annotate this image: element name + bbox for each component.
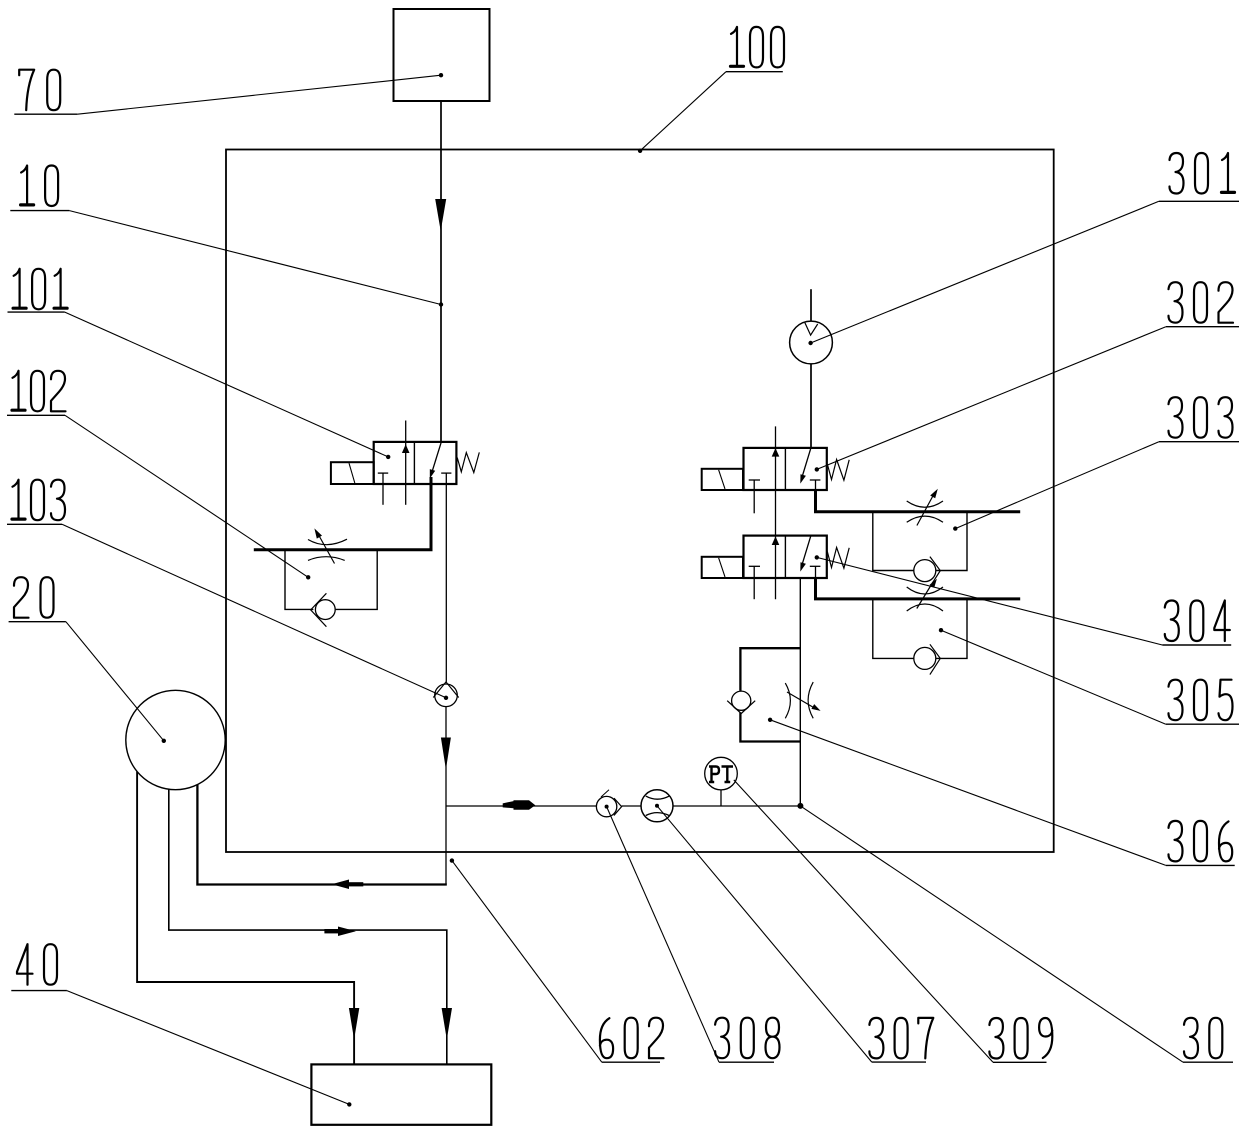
306 check valve: [732, 691, 751, 710]
pressure gauge 301: [810, 289, 812, 321]
throttle 102 (adjustable restrictor): [308, 539, 347, 544]
leader 20: [66, 622, 164, 741]
flow arrow down on wire: [435, 199, 446, 231]
box 70 (controller): [394, 9, 490, 101]
valve 101 right-cell diagonal path: [431, 442, 441, 474]
bypass check valve loop of 102: [285, 550, 377, 610]
label 301: [1170, 153, 1235, 194]
leader 305: [941, 630, 1166, 724]
leader 301: [811, 201, 1159, 343]
leader 10: [69, 211, 441, 305]
leader 309: [734, 780, 993, 1062]
leader 602: [452, 861, 602, 1063]
leader 103: [62, 524, 446, 698]
label 10: [21, 166, 59, 207]
pump 20: [126, 690, 225, 789]
valve 302 spring: [827, 460, 849, 481]
wire below 103 to main line: [445, 707, 447, 885]
pump wire 2 to box 40 right inlet: [169, 789, 447, 1064]
sensor 308 (circle with seat): [596, 796, 616, 816]
throttle 303 arcs and arrow: [907, 501, 943, 507]
valve 304 left-cell blocked port T: [749, 565, 760, 567]
wire from valve 304 down to junction: [799, 578, 801, 806]
throttle 305 arcs and arrow: [907, 587, 943, 594]
valve 101 left-cell blocked port T: [378, 472, 388, 474]
leader 308: [607, 807, 719, 1063]
valve 101 body: [374, 442, 457, 484]
valve 302 body: [744, 448, 827, 490]
label 304: [1165, 601, 1230, 642]
wire valve 101 right port down to check valve 103: [445, 484, 447, 682]
leader 307: [657, 806, 872, 1062]
leader 102: [65, 415, 308, 577]
one-way throttle 306: bypass loop: [740, 648, 800, 741]
valve 101 solenoid: [331, 462, 374, 484]
one-way throttle 305: loop: [873, 599, 967, 659]
leader 30: [800, 806, 1183, 1062]
valve 101 right-cell blocked port T: [441, 472, 451, 474]
wire from box 70 down to valve 101: [440, 101, 442, 442]
valve 304 solenoid: [702, 557, 743, 578]
junction node 30: [797, 803, 803, 809]
label 70: [19, 70, 60, 111]
label 303: [1169, 397, 1233, 438]
valve 304 right-cell blocked port T: [810, 565, 821, 567]
label 101: [13, 269, 67, 310]
leader 303: [955, 442, 1159, 529]
thick wire from valve 302: [816, 490, 1021, 512]
leader 304: [817, 557, 1163, 645]
306 throttle arcs and arrow: [785, 683, 790, 718]
valve 101 spring: [457, 452, 479, 472]
leader 302: [817, 327, 1166, 470]
thick wire from valve 101 to throttle 102: [254, 477, 431, 550]
leader 306: [770, 720, 1166, 866]
pump return wire (thick) with left arrow: [197, 785, 446, 885]
label 40: [17, 944, 57, 985]
leader 70: [77, 75, 441, 114]
label 30: [1184, 1018, 1222, 1059]
label 100: [731, 27, 785, 68]
flow meter 307: [641, 790, 673, 822]
label 306: [1169, 821, 1233, 862]
label 302: [1169, 282, 1234, 323]
label 305: [1169, 680, 1233, 721]
label 20: [14, 577, 54, 618]
leader 101: [65, 312, 388, 457]
frame box 100: [226, 150, 1054, 853]
label 602: [600, 1018, 664, 1058]
leader 100: [640, 72, 726, 151]
label 307: [869, 1018, 933, 1059]
box 40 (tank): [311, 1064, 491, 1124]
valve 302 right-cell diagonal: [801, 448, 811, 481]
pump wire 3 to box 40 left inlet: [137, 772, 354, 1065]
PT sensor 309: [705, 757, 738, 790]
label 102: [12, 371, 66, 412]
valve 302 solenoid: [702, 469, 743, 490]
valve 304 spring: [827, 548, 849, 569]
label 309: [989, 1018, 1052, 1059]
main horizontal line with right arrow: [446, 805, 596, 807]
valve 302 left-cell blocked port T: [749, 479, 760, 481]
valve 101 left-cell flow path with up arrow: [405, 421, 407, 505]
thick wire from valve 304: [816, 578, 1021, 599]
valve 304 body: [744, 536, 827, 578]
valve 304 right-cell diagonal: [801, 536, 811, 569]
label 103: [12, 480, 65, 521]
one-way throttle 303: loop: [873, 512, 967, 571]
leader 40: [67, 991, 349, 1105]
valve 302 right-cell blocked port T: [810, 479, 821, 481]
label 308: [715, 1018, 779, 1058]
check valve 103: [435, 684, 458, 707]
shared left-cell flow line through both right valves: [775, 426, 777, 599]
